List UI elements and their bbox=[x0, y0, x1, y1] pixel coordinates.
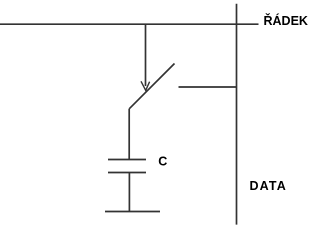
transistor arrowhead bbox=[141, 81, 150, 90]
svg-text:DATA: DATA bbox=[250, 179, 287, 193]
wire DATA column line bbox=[236, 4, 238, 225]
wire gate lead from row line bbox=[145, 24, 147, 86]
wire capacitor to ground rail bbox=[128, 173, 130, 212]
ground rail bbox=[105, 211, 160, 213]
svg-text:C: C bbox=[158, 154, 167, 168]
svg-text:ŘÁDEK: ŘÁDEK bbox=[264, 13, 308, 28]
transistor switch blade bbox=[129, 64, 174, 109]
capacitor C1 top plate bbox=[108, 159, 146, 161]
capacitor C1 bottom plate bbox=[108, 172, 146, 174]
wire row line RADEK bbox=[0, 23, 259, 25]
wire blade to capacitor bbox=[128, 109, 130, 160]
wire contact to DATA line bbox=[179, 86, 237, 88]
